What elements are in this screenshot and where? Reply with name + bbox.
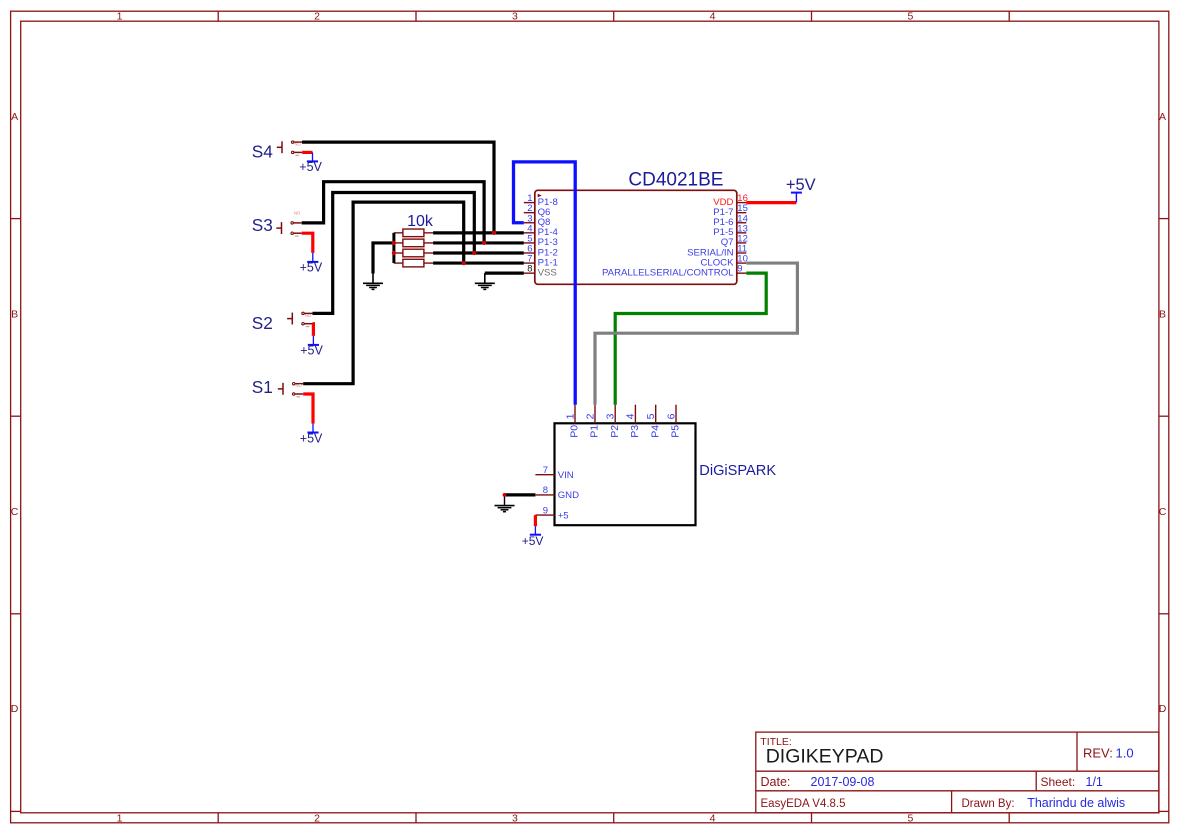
- svg-text:6: 6: [665, 413, 677, 419]
- svg-text:S3: S3: [252, 215, 273, 235]
- svg-text:2: 2: [314, 11, 320, 23]
- svg-text:2017-09-08: 2017-09-08: [811, 775, 875, 789]
- svg-text:VIN: VIN: [558, 470, 574, 481]
- svg-text:NO: NO: [294, 210, 301, 215]
- svg-text:+5V: +5V: [300, 344, 323, 358]
- svg-text:+5V: +5V: [299, 160, 322, 174]
- svg-text:S4: S4: [252, 142, 273, 162]
- svg-text:3: 3: [512, 812, 518, 824]
- svg-text:1: 1: [117, 11, 123, 23]
- svg-text:PARALLELSERIAL/CONTROL: PARALLELSERIAL/CONTROL: [602, 267, 734, 278]
- svg-text:P0: P0: [569, 425, 581, 438]
- svg-text:2: 2: [584, 413, 596, 419]
- svg-text:9: 9: [737, 264, 742, 275]
- svg-text:5: 5: [645, 413, 657, 419]
- svg-text:P5: P5: [670, 425, 682, 438]
- svg-text:4: 4: [710, 812, 716, 824]
- svg-text:P3: P3: [629, 425, 641, 438]
- svg-text:S1: S1: [252, 377, 273, 397]
- svg-text:1.0: 1.0: [1116, 746, 1134, 761]
- svg-text:+5: +5: [558, 510, 569, 521]
- svg-text:EasyEDA V4.8.5: EasyEDA V4.8.5: [761, 798, 846, 810]
- svg-text:3: 3: [605, 413, 617, 419]
- svg-text:NO: NO: [296, 383, 303, 388]
- svg-text:P1: P1: [589, 425, 601, 438]
- svg-text:8: 8: [543, 485, 548, 496]
- svg-text:P2: P2: [609, 425, 621, 438]
- svg-text:DiGiSPARK: DiGiSPARK: [699, 463, 776, 479]
- svg-text:B: B: [1159, 308, 1166, 320]
- svg-text:D: D: [11, 703, 19, 715]
- svg-text:4: 4: [710, 11, 716, 23]
- svg-text:Tharindu de alwis: Tharindu de alwis: [1027, 796, 1125, 810]
- svg-text:REV:: REV:: [1083, 746, 1113, 761]
- svg-text:Drawn By:: Drawn By:: [962, 798, 1015, 810]
- svg-text:9: 9: [543, 505, 548, 516]
- svg-text:10k: 10k: [407, 213, 434, 230]
- svg-text:C: C: [1159, 506, 1167, 518]
- svg-text:+5V: +5V: [786, 176, 816, 194]
- svg-text:Sheet:: Sheet:: [1041, 775, 1076, 789]
- svg-text:VSS: VSS: [538, 267, 557, 278]
- svg-text:NO: NO: [295, 142, 302, 147]
- svg-text:2: 2: [314, 812, 320, 824]
- svg-text:B: B: [11, 308, 18, 320]
- svg-text:1: 1: [564, 413, 576, 419]
- svg-text:8: 8: [527, 264, 532, 275]
- svg-text:7: 7: [543, 465, 548, 476]
- svg-text:4: 4: [625, 413, 637, 419]
- svg-text:D: D: [1159, 703, 1167, 715]
- svg-text:1/1: 1/1: [1086, 775, 1103, 789]
- svg-text:C: C: [11, 506, 19, 518]
- svg-text:+5V: +5V: [300, 431, 323, 445]
- svg-text:S2: S2: [252, 313, 273, 333]
- svg-text:5: 5: [907, 11, 913, 23]
- svg-text:GND: GND: [558, 490, 579, 501]
- svg-text:1: 1: [117, 812, 123, 824]
- svg-text:NO: NO: [305, 313, 312, 318]
- svg-text:+5V: +5V: [300, 261, 323, 275]
- svg-text:5: 5: [907, 812, 913, 824]
- svg-text:+5V: +5V: [522, 534, 544, 548]
- svg-text:DIGIKEYPAD: DIGIKEYPAD: [766, 745, 884, 767]
- svg-text:P4: P4: [649, 425, 661, 438]
- svg-text:CD4021BE: CD4021BE: [628, 170, 723, 191]
- svg-text:Date:: Date:: [761, 775, 791, 789]
- svg-text:A: A: [1159, 111, 1166, 123]
- svg-text:3: 3: [512, 11, 518, 23]
- svg-text:A: A: [11, 111, 18, 123]
